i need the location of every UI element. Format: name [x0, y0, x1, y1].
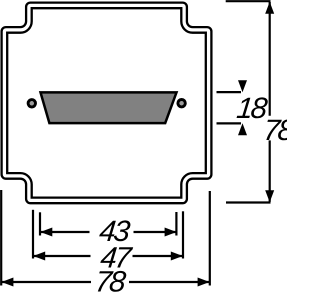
- dim 47: dimension line: [33, 255, 90, 257]
- connector cutout (trapezoid): [41, 92, 177, 123]
- dim 43: extension lines: [39, 212, 41, 235]
- 47 right arrow: [171, 252, 183, 261]
- 78 bottom right arrow: [198, 278, 210, 287]
- dim 18: extension lines: [217, 91, 242, 93]
- 78 bottom left arrow: [1, 278, 13, 287]
- 78 right top arrow (up): [265, 2, 274, 14]
- 18 top arrow (down): [238, 80, 247, 92]
- svg-text:78: 78: [94, 266, 129, 299]
- svg-text:78: 78: [262, 114, 287, 147]
- 47 left arrow: [33, 252, 45, 261]
- dimension labels: [94, 92, 297, 298]
- 43 left arrow: [40, 228, 52, 237]
- dim 47: extension lines: [32, 210, 34, 259]
- dim 78 bottom: dimension line: [1, 281, 91, 283]
- dim 78 right: dimension line (gap for text): [269, 2, 271, 116]
- dimension graphics: [1, 1, 270, 285]
- right screw hole: [178, 100, 185, 107]
- left screw hole: [28, 100, 35, 107]
- dim 78 bottom: extension lines: [0, 190, 2, 286]
- dim 43: dimension line: [40, 231, 89, 233]
- 78 right bottom arrow (down): [265, 190, 274, 202]
- 18 bottom arrow (up): [238, 123, 247, 135]
- dim 78 right: extension lines: [226, 0, 271, 2]
- cover plate outline (double line, notched corners): [4, 5, 208, 200]
- 43 right arrow: [165, 228, 177, 237]
